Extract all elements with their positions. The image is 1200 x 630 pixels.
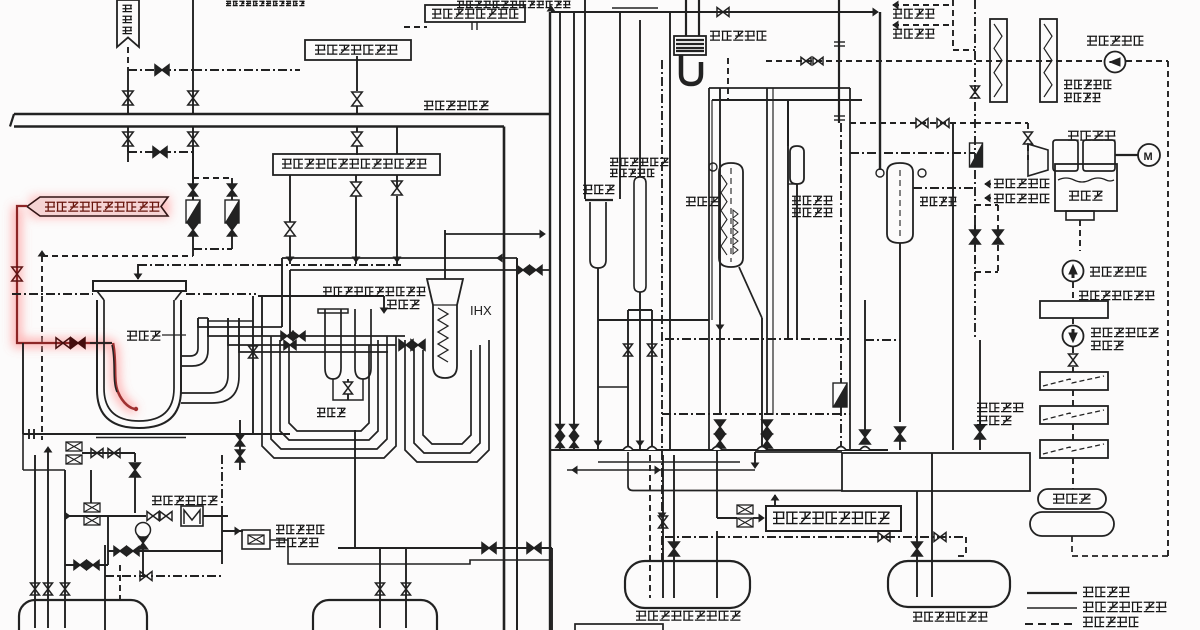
svg-text:M: M — [1144, 151, 1153, 163]
svg-text:IHX: IHX — [470, 303, 492, 318]
